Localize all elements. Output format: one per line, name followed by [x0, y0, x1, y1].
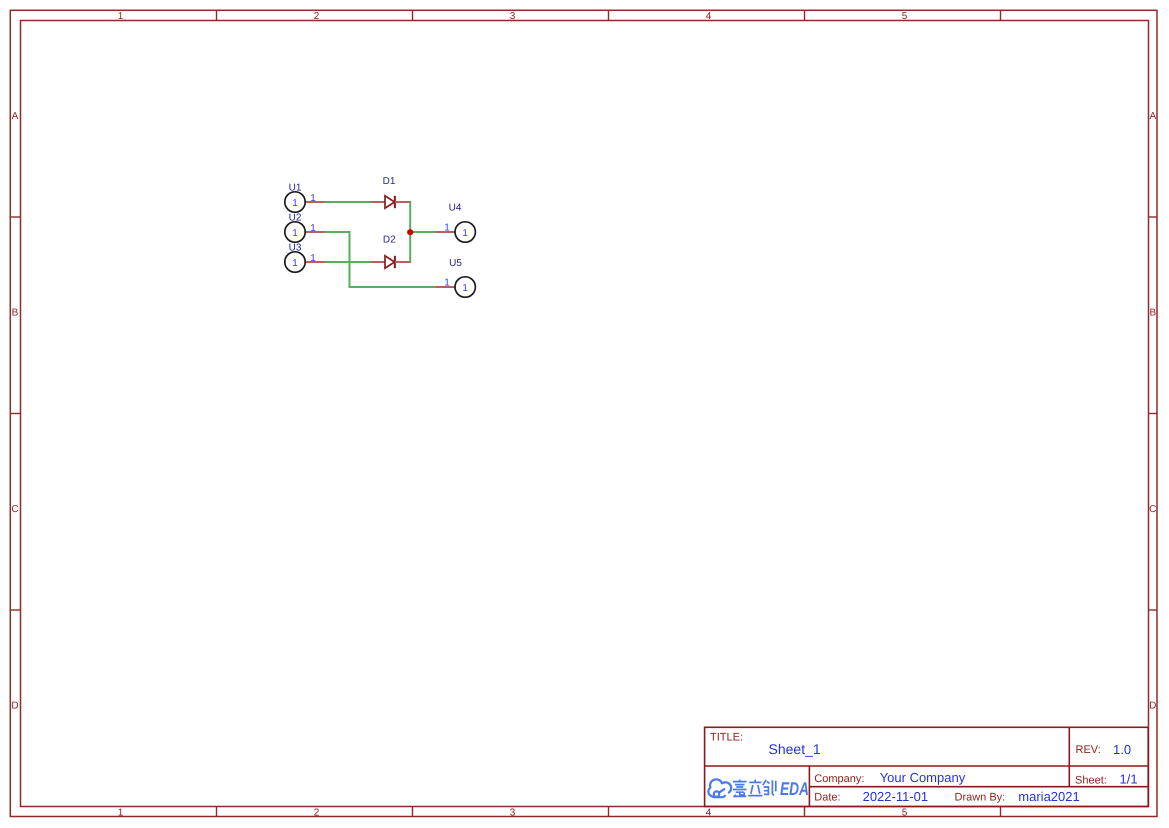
- logo text jlc eda: [733, 780, 776, 797]
- port U2: [285, 213, 325, 243]
- logo cloud icon: [708, 779, 731, 797]
- company label: [814, 773, 864, 785]
- wire U2 net to U5: [349, 286, 436, 288]
- title label: [710, 732, 743, 744]
- svg-text:1/1: 1/1: [1120, 771, 1138, 786]
- port U5: [435, 258, 475, 297]
- port U3: [285, 243, 325, 273]
- svg-text:B: B: [12, 307, 19, 318]
- row tick marks right: [1149, 217, 1158, 610]
- sheet label: [1075, 775, 1107, 787]
- svg-text:Drawn By:: Drawn By:: [955, 792, 1006, 804]
- svg-text:D2: D2: [383, 235, 396, 246]
- svg-text:A: A: [12, 111, 19, 122]
- wire node to U4: [410, 231, 435, 233]
- svg-text:C: C: [11, 504, 18, 515]
- svg-text:4: 4: [706, 807, 712, 818]
- column numbers bottom: [118, 807, 908, 818]
- svg-text:A: A: [1149, 111, 1156, 122]
- svg-text:D1: D1: [383, 176, 396, 187]
- title value Sheet_1: [769, 741, 821, 757]
- svg-text:U5: U5: [449, 258, 462, 269]
- svg-text:1: 1: [444, 223, 450, 234]
- svg-text:B: B: [1149, 307, 1156, 318]
- column tick marks top: [217, 10, 1001, 20]
- date label: [814, 792, 840, 804]
- junction node: [407, 229, 413, 235]
- svg-text:1: 1: [118, 11, 124, 22]
- svg-text:TITLE:: TITLE:: [710, 732, 743, 744]
- svg-text:1: 1: [310, 223, 316, 234]
- wire U3 to D2 anode: [325, 261, 371, 263]
- logo text EDA: [780, 778, 809, 799]
- rev label: [1076, 744, 1101, 756]
- svg-text:1: 1: [310, 253, 316, 264]
- svg-text:3: 3: [510, 11, 516, 22]
- diode D2: [371, 235, 411, 269]
- svg-text:1: 1: [292, 258, 298, 269]
- svg-text:5: 5: [902, 11, 908, 22]
- rev value: [1113, 742, 1131, 757]
- port U4: [435, 202, 475, 242]
- wire D1 cathode down to node, node up from D2 cathode: [409, 201, 411, 263]
- svg-text:Date:: Date:: [814, 792, 840, 804]
- svg-text:3: 3: [510, 807, 516, 818]
- svg-text:Sheet_1: Sheet_1: [769, 741, 821, 757]
- svg-text:1: 1: [310, 193, 316, 204]
- row letters right: [1149, 111, 1156, 712]
- svg-text:1.0: 1.0: [1113, 742, 1131, 757]
- svg-text:D: D: [11, 700, 18, 711]
- column numbers top: [118, 11, 908, 22]
- svg-text:2: 2: [314, 11, 320, 22]
- svg-text:Sheet:: Sheet:: [1075, 775, 1107, 787]
- wire U1 to D1 anode: [325, 201, 371, 203]
- port U1: [285, 183, 325, 213]
- svg-text:1: 1: [118, 807, 124, 818]
- svg-text:U3: U3: [289, 243, 302, 254]
- svg-text:maria2021: maria2021: [1018, 789, 1079, 804]
- row tick marks left: [10, 217, 20, 610]
- wire U2 net vertical: [349, 231, 351, 288]
- svg-text:1: 1: [292, 228, 298, 239]
- svg-text:U2: U2: [289, 213, 302, 224]
- svg-text:D: D: [1149, 700, 1156, 711]
- svg-text:2: 2: [314, 807, 320, 818]
- drawn by value: [1018, 789, 1079, 804]
- date value: [863, 789, 929, 804]
- row letters left: [11, 111, 18, 712]
- svg-text:1: 1: [462, 228, 468, 239]
- sheet value: [1120, 771, 1138, 786]
- svg-text:Company:: Company:: [814, 773, 864, 785]
- svg-text:Your Company: Your Company: [880, 770, 966, 785]
- svg-text:1: 1: [462, 283, 468, 294]
- svg-text:U4: U4: [449, 202, 462, 213]
- diode D1: [371, 176, 411, 208]
- svg-text:1: 1: [444, 278, 450, 289]
- svg-text:2022-11-01: 2022-11-01: [863, 789, 929, 804]
- company value: [880, 770, 966, 785]
- svg-text:1: 1: [292, 198, 298, 209]
- drawn by label: [955, 792, 1006, 804]
- svg-text:REV:: REV:: [1076, 744, 1101, 756]
- title block frame: [705, 727, 1149, 806]
- svg-text:U1: U1: [289, 183, 302, 194]
- svg-text:4: 4: [706, 11, 712, 22]
- svg-text:EDA: EDA: [780, 778, 809, 799]
- svg-text:C: C: [1149, 504, 1156, 515]
- svg-text:5: 5: [902, 807, 908, 818]
- wire U2 right: [325, 231, 350, 233]
- column tick marks bottom: [217, 807, 1001, 817]
